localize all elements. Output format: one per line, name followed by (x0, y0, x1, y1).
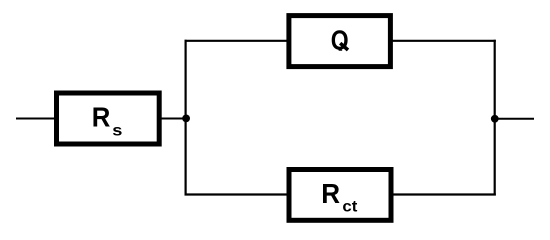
resistor Rs (57, 93, 160, 144)
resistor Rct (289, 170, 391, 221)
wire: top right segment (390, 40, 496, 42)
wire: top left segment (185, 40, 290, 42)
node B junction dot (491, 115, 499, 123)
wire: bottom right segment (391, 193, 496, 195)
wire: left terminal lead (16, 118, 56, 120)
wire: right terminal lead (495, 118, 534, 120)
wire: bottom left segment (185, 193, 290, 195)
wire: right branch rail (494, 40, 496, 196)
CPE Q (289, 16, 391, 67)
svg-text:s: s (112, 120, 122, 139)
svg-text:ct: ct (342, 198, 357, 216)
svg-text:R: R (92, 101, 111, 132)
node A junction dot (182, 115, 190, 123)
wire: left branch rail (185, 40, 187, 196)
svg-text:R: R (321, 178, 340, 209)
wire: Rs output to node A (159, 118, 186, 120)
